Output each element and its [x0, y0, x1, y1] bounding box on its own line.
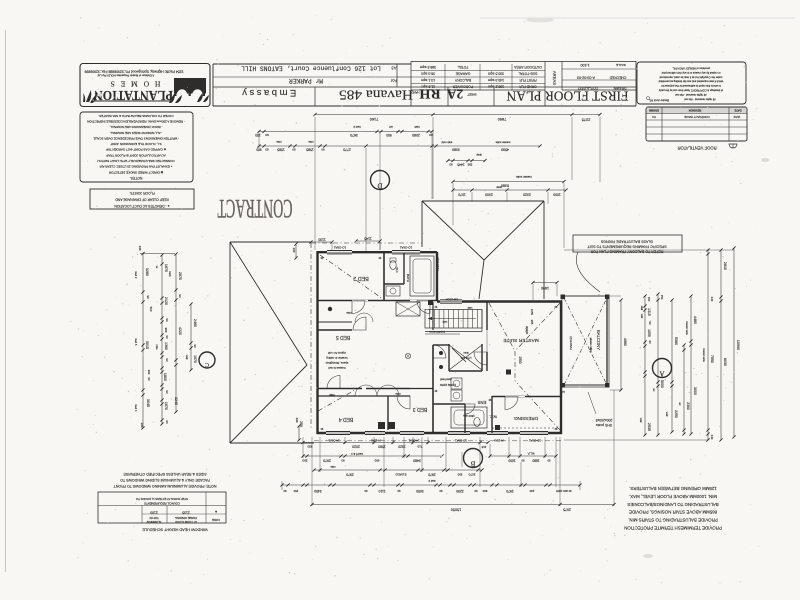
svg-text:handrail above: handrail above: [428, 330, 444, 333]
svg-text:140.3 sqm: 140.3 sqm: [488, 78, 504, 82]
svg-text:A/J ARTICULATION JOINT: A/J ARTICULATION JOINT ⊞ FLOOR TRAP: [106, 153, 165, 157]
svg-text:90: 90: [292, 147, 296, 151]
svg-text:void: void: [467, 306, 472, 310]
svg-text:master suite: master suite: [685, 321, 688, 335]
svg-text:◉ DIRECT WIRED SMOKE DETECTOR: ◉ DIRECT WIRED SMOKE DETECTOR: [108, 170, 163, 174]
svg-text:FRAME OPENING: FRAME OPENING: [175, 516, 197, 520]
svg-text:BALCONY: BALCONY: [596, 330, 601, 350]
small dims above top wall: [311, 241, 332, 243]
svg-text:A: A: [659, 370, 664, 378]
hip roof chain: [451, 185, 567, 204]
svg-text:CONTRACT ISSUE: CONTRACT ISSUE: [684, 115, 710, 119]
svg-text:8030: 8030: [723, 358, 727, 366]
revision table: [646, 107, 747, 141]
svg-text:15050: 15050: [451, 508, 462, 512]
svg-text:H O M E S: H O M E S: [109, 79, 161, 88]
svg-text:BED 5: BED 5: [336, 334, 351, 340]
svg-text:FACADE ONLY & ALUMINIUM SLIDIN: FACADE ONLY & ALUMINIUM SLIDING WINDOWS …: [120, 478, 210, 482]
svg-text:300: 300: [147, 370, 151, 375]
balustrade paragraph: [624, 486, 722, 531]
svg-text:240: 240: [140, 423, 144, 428]
svg-text:90: 90: [521, 458, 524, 462]
svg-text:provision of HENLEY ARCH P/L.: provision of HENLEY ARCH P/L.: [672, 67, 710, 71]
svg-text:(2)12-O6A1: (2)12-O6A1: [436, 257, 440, 271]
circle marker A: [653, 359, 672, 378]
svg-text:Havana 485: Havana 485: [339, 87, 413, 102]
svg-text:150: 150: [255, 133, 261, 137]
svg-text:A/J: A/J: [560, 390, 565, 394]
svg-text:skylight: skylight: [525, 326, 528, 334]
svg-text:PLANTATION: PLANTATION: [94, 87, 173, 102]
svg-text:For: For: [390, 78, 397, 83]
svg-text:void: void: [639, 418, 642, 423]
svg-text:GLASS BALUSTRADE FIXINGS: GLASS BALUSTRADE FIXINGS: [600, 240, 653, 244]
svg-text:C: C: [205, 361, 209, 367]
svg-text:A Division of Mainly Propertie: A Division of Mainly Properties HOLDI Pt…: [97, 74, 154, 78]
svg-text:150: 150: [660, 295, 664, 300]
logo box Plantation Homes: [80, 64, 210, 107]
svg-text:1360: 1360: [164, 342, 168, 350]
svg-text:BALCONY: BALCONY: [454, 78, 471, 82]
svg-text:1670: 1670: [164, 402, 168, 410]
svg-text:3050: 3050: [416, 489, 424, 493]
svg-text:stair void: stair void: [441, 141, 452, 145]
svg-text:space, Strengthen: space, Strengthen: [325, 361, 348, 365]
svg-text:1585: 1585: [306, 147, 314, 151]
top dim chain 2: [255, 125, 434, 137]
svg-text:to whom this report is address: to whom this report is addressed for the…: [661, 84, 721, 88]
svg-text:960: 960: [164, 328, 168, 333]
bottom overall chain: [310, 503, 615, 512]
svg-text:90: 90: [474, 489, 477, 493]
svg-text:240: 240: [138, 246, 142, 251]
svg-text:2970: 2970: [323, 458, 331, 462]
master suite 6380 chain: [451, 175, 565, 248]
svg-text:1585: 1585: [277, 147, 285, 151]
top wall windows: [327, 251, 352, 254]
svg-text:COVER TO COLUMNS BELOW BATH &: COVER TO COLUMNS BELOW BATH & SPA WASTES…: [98, 114, 173, 118]
smudge marks: [526, 18, 554, 23]
bottom extension lines: [302, 437, 304, 458]
svg-text:W.C.: W.C.: [489, 415, 497, 419]
chain extension drops: [258, 133, 260, 148]
svg-text:300: 300: [457, 472, 462, 476]
svg-text:1670: 1670: [164, 264, 168, 272]
svg-text:150: 150: [293, 489, 298, 493]
svg-text:2290: 2290: [456, 489, 464, 493]
svg-text:1145: 1145: [364, 237, 371, 241]
svg-text:150: 150: [647, 297, 651, 302]
svg-text:3045: 3045: [146, 399, 150, 407]
svg-text:location in ceiling: location in ceiling: [326, 356, 348, 360]
bottom dim chain 4: [280, 483, 581, 493]
svg-text:1800: 1800: [163, 373, 167, 381]
svg-text:void: void: [185, 355, 188, 360]
svg-text:4960: 4960: [623, 338, 627, 346]
svg-text:(2)12-O6A1: (2)12-O6A1: [569, 336, 573, 350]
right dim chains: [564, 246, 740, 441]
svg-text:▲: ▲: [214, 510, 217, 514]
svg-text:S.L. FLOOR TILE EXPANSION JOIN: S.L. FLOOR TILE EXPANSION JOINT: [110, 142, 161, 146]
svg-text:90: 90: [265, 133, 269, 137]
svg-text:bath: bath: [168, 271, 172, 277]
outer walls: [317, 251, 562, 434]
svg-text:90: 90: [341, 458, 345, 462]
circle marker C: [199, 352, 215, 368]
robe double doors: [355, 385, 377, 396]
svg-text:2300: 2300: [686, 402, 690, 410]
svg-text:3000: 3000: [693, 387, 697, 395]
svg-text:FIRST FLOOR PLAN: FIRST FLOOR PLAN: [506, 89, 628, 104]
svg-text:415: 415: [481, 445, 486, 449]
svg-text:1O-O6A1: 1O-O6A1: [455, 439, 467, 443]
svg-text:SCALE: SCALE: [616, 63, 626, 67]
svg-text:Mr PARKER: Mr PARKER: [289, 77, 323, 84]
svg-text:A3: A3: [391, 66, 397, 71]
svg-text:P3: P3: [652, 115, 656, 119]
svg-text:125MM OPENING BETWEEN BALUSTER: 125MM OPENING BETWEEN BALUSTERS.: [629, 486, 717, 491]
svg-text:13.1 sqm: 13.1 sqm: [421, 78, 435, 82]
svg-text:4460: 4460: [693, 316, 697, 324]
svg-text:710: 710: [417, 445, 422, 449]
svg-text:90: 90: [146, 295, 150, 299]
svg-text:2020: 2020: [352, 445, 360, 449]
svg-text:bed 2: bed 2: [353, 125, 361, 129]
svg-text:2770: 2770: [343, 147, 351, 151]
svg-text:L7x6-L/O: L7x6-L/O: [461, 356, 472, 360]
stairs: [425, 306, 482, 334]
svg-text:W.C: W.C: [395, 267, 399, 272]
svg-text:240: 240: [710, 297, 714, 302]
svg-text:14-O6A1: 14-O6A1: [328, 439, 340, 443]
svg-text:1O-O6A1: 1O-O6A1: [334, 246, 347, 250]
svg-text:NOTES-: NOTES-: [130, 176, 143, 180]
ensuite fixtures: [451, 378, 487, 428]
svg-text:OUTDOOR AREA: OUTDOOR AREA: [513, 65, 541, 69]
svg-text:90: 90: [364, 489, 367, 493]
linen cupboard: [449, 345, 482, 370]
upper window OM-18OA: [440, 300, 462, 303]
svg-text:5360: 5360: [674, 337, 678, 345]
window schedule table: [98, 492, 226, 532]
window note: [113, 472, 217, 488]
svg-text:3380: 3380: [452, 148, 460, 152]
svg-text:510: 510: [149, 307, 153, 312]
svg-text:11/02: 11/02: [733, 115, 740, 119]
top dim chain 3: [256, 140, 541, 152]
dressing robe line: [492, 427, 561, 429]
svg-text:TOTAL: TOTAL: [458, 65, 469, 69]
svg-text:330.5 sqm: 330.5 sqm: [488, 72, 504, 76]
svg-text:ENS: ENS: [477, 400, 486, 405]
svg-text:2810: 2810: [723, 262, 727, 270]
svg-text:void: void: [442, 320, 447, 324]
areas table: [411, 61, 636, 63]
bath fixtures: [386, 256, 434, 296]
top dim chain overall: [313, 113, 601, 250]
svg-text:plaster ceiling: plaster ceiling: [589, 338, 592, 353]
svg-text:2250: 2250: [674, 410, 678, 418]
svg-text:dwarf wall: dwarf wall: [440, 378, 452, 382]
svg-text:W.L.P.: W.L.P.: [527, 451, 534, 454]
svg-text:90: 90: [397, 489, 400, 493]
svg-text:FIRST FLR: FIRST FLR: [519, 78, 537, 82]
svg-text:600: 600: [374, 458, 379, 462]
svg-text:master suite: master suite: [516, 175, 532, 179]
svg-text:bath: bath: [414, 125, 420, 129]
svg-text:3480: 3480: [413, 458, 421, 462]
bottom dim chain 3: [312, 465, 483, 483]
svg-text:1000M 220W: 1000M 220W: [440, 383, 456, 387]
svg-text:2075: 2075: [582, 118, 591, 123]
svg-text:- REMOVE A 250mm DIAM. REMOVEA: - REMOVE A 250mm DIAM. REMOVEABLE/ACCESS…: [87, 119, 185, 123]
svg-text:BED 3: BED 3: [413, 406, 428, 412]
svg-text:2970: 2970: [346, 472, 354, 476]
svg-text:All rights reserved - this set: All rights reserved - this set: [675, 93, 707, 97]
logo porch graphic: [174, 78, 206, 87]
svg-text:900: 900: [386, 133, 392, 137]
svg-text:2080: 2080: [412, 133, 420, 137]
scan edge line: [5, 30, 7, 572]
stair direction arrow: [428, 318, 476, 320]
svg-text:A-03-02-03: A-03-02-03: [577, 76, 595, 80]
svg-text:D: D: [377, 182, 382, 190]
svg-text:- BRICK DIMENSIONS ARE NOMINAL: - BRICK DIMENSIONS ARE NOMINAL.: [109, 125, 162, 129]
svg-text:- ALL WINDOW SIZES ARE NOMINAL: - ALL WINDOW SIZES ARE NOMINAL.: [110, 131, 163, 135]
balcony: [561, 295, 613, 428]
svg-text:- WRITTEN DIMENSIONS TAKE PREC: - WRITTEN DIMENSIONS TAKE PRECEDENCE OVE…: [93, 136, 179, 140]
svg-text:3450: 3450: [314, 489, 322, 493]
svg-text:BALUSTRADING TO LANDINGS/BALCO: BALUSTRADING TO LANDINGS/BALCONIES: [627, 502, 718, 507]
svg-text:250: 250: [299, 421, 303, 427]
AC duct note box: [90, 189, 194, 209]
shower box near stairs: [396, 302, 420, 316]
svg-text:2075: 2075: [563, 508, 571, 512]
svg-text:ROOF VENTILATOR: ROOF VENTILATOR: [677, 146, 716, 151]
svg-text:WINDOW HEAD HEIGHT SCHEDULE: WINDOW HEAD HEIGHT SCHEDULE: [142, 528, 208, 532]
svg-text:1800 spa: 1800 spa: [463, 414, 475, 418]
svg-text:2535: 2535: [647, 423, 651, 431]
svg-text:4590: 4590: [501, 147, 509, 151]
svg-text:DRAWN: DRAWN: [613, 86, 626, 90]
svg-text:240: 240: [529, 489, 534, 493]
svg-text:7550: 7550: [710, 355, 714, 363]
floor waste symbol: [405, 353, 410, 358]
svg-text:1315: 1315: [647, 308, 651, 316]
svg-text:bed 4: bed 4: [134, 405, 138, 412]
svg-text:3280: 3280: [145, 268, 149, 276]
svg-text:(4-18A): (4-18A): [494, 439, 503, 443]
svg-text:void: void: [665, 412, 668, 417]
svg-text:linen: linen: [463, 351, 469, 354]
svg-text:bed 2: bed 2: [134, 272, 138, 279]
svg-text:3240: 3240: [174, 397, 178, 405]
svg-text:4220: 4220: [178, 327, 182, 335]
svg-text:1445: 1445: [457, 162, 465, 166]
svg-text:90: 90: [449, 162, 453, 166]
svg-text:90: 90: [547, 458, 550, 462]
svg-text:spay: spay: [496, 185, 502, 188]
left roof gable outline: [230, 242, 314, 443]
svg-text:wir: wir: [389, 125, 393, 129]
svg-text:510/610: 510/610: [395, 472, 406, 476]
drawn checked scale: [562, 68, 636, 70]
svg-text:3015: 3015: [145, 341, 149, 349]
svg-text:1055: 1055: [647, 329, 651, 337]
svg-text:2900: 2900: [518, 356, 522, 363]
svg-text:HT FROM FLOOR: HT FROM FLOOR: [175, 520, 197, 524]
svg-text:DRAWN: DRAWN: [649, 108, 659, 112]
svg-text:7890: 7890: [497, 117, 506, 122]
svg-text:ALUMINIUM: ALUMINIUM: [147, 520, 162, 524]
svg-text:robe: robe: [330, 465, 336, 468]
svg-text:OM-18OA: OM-18OA: [446, 298, 459, 302]
notes box: [80, 112, 193, 182]
svg-text:(4-18A): (4-18A): [371, 439, 380, 443]
svg-text:1070: 1070: [458, 192, 466, 196]
svg-text:1000: 1000: [553, 192, 561, 196]
svg-text:COS-A-0337: COS-A-0337: [578, 86, 599, 90]
svg-text:GARAGE: GARAGE: [455, 72, 470, 76]
svg-text:1:100: 1:100: [581, 63, 590, 67]
svg-text:1000: 1000: [508, 458, 515, 462]
svg-text:230: 230: [295, 418, 299, 423]
svg-text:7160: 7160: [369, 117, 378, 122]
left dim chains: [134, 246, 197, 430]
svg-text:SUB-TOTAL: SUB-TOTAL: [518, 72, 537, 76]
svg-text:robe: robe: [395, 392, 401, 396]
bottom dim chain 2: [301, 451, 557, 462]
svg-text:trusses to suit: trusses to suit: [328, 366, 345, 370]
svg-text:which it was requested and any: which it was requested and any fair deal…: [658, 80, 723, 84]
svg-text:3254 Pacific Highway, Springwo: 3254 Pacific Highway, Springwood Ph.:329…: [84, 70, 183, 74]
roof ventilator note: [677, 144, 737, 151]
svg-text:master suite: master suite: [495, 141, 510, 145]
svg-text:MIN. 1000MM ABOVE FLOOR LEVEL,: MIN. 1000MM ABOVE FLOOR LEVEL, MAX.: [629, 494, 717, 499]
wc pan lower: [478, 419, 480, 421]
balcony framing note: [573, 235, 682, 292]
svg-text:DRESSING: DRESSING: [514, 416, 538, 421]
svg-text:355: 355: [467, 162, 472, 166]
circle marker D: [371, 171, 390, 190]
svg-text:Lot 126 Confluence Court, EATO: Lot 126 Confluence Court, EATONS HILL: [241, 65, 381, 72]
svg-text:bed 3: bed 3: [428, 479, 435, 483]
svg-text:1110: 1110: [378, 489, 385, 493]
svg-text:stair: stair: [640, 306, 643, 311]
svg-text:spay: spay: [476, 153, 482, 156]
svg-text:NOTE: PROVIDE ALUMINIUM AWNING: NOTE: PROVIDE ALUMINIUM AWNING WINDOWS T…: [113, 484, 217, 488]
svg-text:1580: 1580: [378, 445, 386, 449]
svg-text:REVISION: REVISION: [689, 108, 702, 112]
svg-text:1130: 1130: [318, 238, 325, 242]
svg-text:CODE: CODE: [212, 518, 220, 522]
svg-text:robe: robe: [276, 140, 282, 144]
svg-text:or copied by any means or in a: or copied by any means or in any form wi…: [661, 71, 720, 75]
svg-text:11.8 sqm: 11.8 sqm: [421, 85, 435, 89]
circle marker B: [464, 449, 483, 468]
copyright box: [637, 62, 746, 104]
svg-text:1O-O6A1: 1O-O6A1: [529, 439, 541, 443]
svg-text:COUNCIL REQUIREMENTS: COUNCIL REQUIREMENTS: [144, 502, 180, 506]
svg-text:STEP DOWN AT EXTERNAL DOORS TO: STEP DOWN AT EXTERNAL DOORS TO: [135, 497, 188, 501]
svg-text:GRND FLR: GRND FLR: [519, 85, 537, 89]
interior walls: [318, 252, 561, 433]
svg-text:2120: 2120: [164, 297, 168, 305]
svg-text:SIDES & REAR UNLESS SPECIFIED: SIDES & REAR UNLESS SPECIFIED OTHERWISE: [123, 472, 207, 476]
svg-text:CONNECTED SIMULTANEOUSLY WITH: CONNECTED SIMULTANEOUSLY WITH LIGHT SWIT…: [97, 159, 174, 163]
svg-text:BED 4: BED 4: [339, 416, 354, 422]
svg-text:1320: 1320: [398, 445, 406, 449]
svg-text:● - DENOTES AC DUCT LOCATION: ● - DENOTES AC DUCT LOCATION: [114, 204, 170, 208]
svg-text:BED 2: BED 2: [353, 275, 369, 281]
svg-text:HAND: HAND: [412, 91, 420, 95]
svg-text:B: B: [470, 460, 475, 468]
svg-text:1050: 1050: [530, 309, 534, 316]
logo plants: [83, 90, 97, 103]
svg-text:under the Copyright Act as it: under the Copyright Act as it may be use…: [659, 75, 722, 79]
svg-text:MASTER SUITE: MASTER SUITE: [503, 337, 538, 343]
svg-text:void: void: [640, 314, 643, 319]
svg-text:DATE: DATE: [734, 108, 741, 112]
svg-text:2100: 2100: [150, 511, 158, 515]
svg-text:AREAS: AREAS: [552, 71, 557, 85]
svg-text:Henley Arch P/L: Henley Arch P/L: [649, 99, 669, 103]
svg-text:FLOOR JOISTS.: FLOOR JOISTS.: [129, 191, 154, 195]
svg-text:◑ EXHAUST FAN PROVIDING 25 LT: ◑ EXHAUST FAN PROVIDING 25 LT/SEC CLEAR …: [99, 165, 173, 169]
svg-text:2970: 2970: [506, 489, 514, 493]
svg-text:SHEET: SHEET: [467, 93, 477, 97]
svg-text:master suite: master suite: [702, 348, 705, 362]
svg-text:188.2 sqm: 188.2 sqm: [488, 85, 504, 89]
svg-text:355: 355: [530, 320, 534, 325]
svg-text:5000: 5000: [660, 380, 664, 388]
svg-text:1O-O6A1: 1O-O6A1: [400, 246, 413, 250]
svg-text:2870: 2870: [178, 272, 182, 280]
bottom wall windows: [326, 431, 350, 434]
svg-text:KEEP CLEAR OF DRAINAGE AND: KEEP CLEAR OF DRAINAGE AND: [115, 197, 169, 201]
svg-text:90: 90: [265, 147, 269, 151]
roof overhang dash lines: [311, 242, 422, 244]
bottom dim chain 1: [301, 441, 489, 449]
svg-text:◈ CAPPED GAS POINT ⊕GT: ◈ CAPPED GAS POINT ⊕GT GARDEN TAP: [106, 148, 166, 152]
svg-text:CONTRACT: CONTRACT: [217, 194, 292, 223]
svg-text:PROVIDE BALUSTRADING TO STAIRS: PROVIDE BALUSTRADING TO STAIRS MIN.: [628, 518, 718, 523]
svg-text:SPECIFIC FRAMING REQUIREMENTS: SPECIFIC FRAMING REQUIREMENTS TO SUIT: [587, 245, 667, 249]
svg-text:40 300 1805: 40 300 1805: [556, 489, 572, 493]
svg-text:2970: 2970: [428, 472, 436, 476]
svg-text:CHECKED: CHECKED: [609, 76, 626, 80]
svg-text:90: 90: [283, 489, 286, 493]
svg-text:robe: robe: [346, 311, 352, 315]
svg-text:390: 390: [302, 458, 307, 462]
svg-text:2000: 2000: [485, 192, 493, 196]
svg-text:PROVIDE TERMIMESH TERMITE PROT: PROVIDE TERMIMESH TERMITE PROTECTION: [624, 526, 722, 531]
svg-text:350: 350: [307, 445, 312, 449]
hip roof top centre: [422, 201, 544, 299]
svg-text:36.0 sqm: 36.0 sqm: [421, 72, 435, 76]
svg-text:Embassy: Embassy: [240, 87, 297, 98]
door arcs: [352, 301, 365, 314]
skylight dims: [446, 153, 486, 167]
svg-text:bed 5: bed 5: [134, 339, 138, 346]
svg-text:90: 90: [321, 147, 325, 151]
svg-text:robe: robe: [329, 393, 335, 397]
svg-text:900: 900: [482, 489, 487, 493]
svg-text:1890: 1890: [541, 286, 549, 290]
svg-text:BATH: BATH: [406, 274, 410, 282]
svg-text:1880: 1880: [532, 458, 539, 462]
svg-text:PORCH/VER: PORCH/VER: [452, 85, 473, 89]
